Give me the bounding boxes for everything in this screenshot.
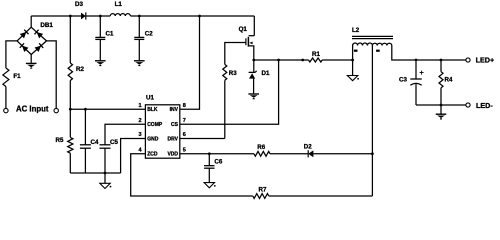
capacitor C3 (electrolytic) bbox=[415, 60, 417, 79]
ground (signal) bbox=[100, 183, 110, 188]
svg-text:R2: R2 bbox=[76, 66, 84, 73]
svg-text:R1: R1 bbox=[312, 51, 320, 58]
wire bbox=[99, 16, 101, 37]
svg-text:C6: C6 bbox=[214, 158, 222, 165]
wire R2 branch bbox=[69, 16, 71, 63]
ground (primary) bbox=[347, 76, 357, 81]
node R1 left bbox=[301, 59, 304, 62]
capacitor C5 bbox=[100, 144, 111, 146]
svg-text:INV: INV bbox=[170, 107, 179, 113]
svg-text:C4: C4 bbox=[91, 139, 99, 146]
node: rail junction R2 bbox=[69, 15, 72, 18]
node pin1/R-divider bbox=[69, 108, 72, 111]
svg-text:VDD: VDD bbox=[167, 152, 178, 158]
svg-text:COMP: COMP bbox=[147, 122, 163, 128]
bridge rectifier DB1 bbox=[17, 27, 31, 41]
svg-text:C1: C1 bbox=[106, 31, 114, 38]
wire tap vertical bbox=[371, 46, 373, 197]
wire secondary right leg bbox=[392, 46, 466, 61]
resistor R5 bbox=[68, 137, 73, 153]
wire bridge top to rail bbox=[30, 16, 32, 27]
wire bbox=[138, 39, 140, 60]
wire pin2 to C5 bbox=[105, 124, 145, 145]
inductor L1 bbox=[110, 14, 130, 16]
svg-text:CS: CS bbox=[171, 122, 179, 128]
svg-text:D1: D1 bbox=[262, 70, 270, 77]
op-amp / controller IC U1 bbox=[145, 105, 179, 158]
svg-text:D2: D2 bbox=[304, 143, 312, 150]
wire bbox=[86, 15, 110, 17]
svg-text:U1: U1 bbox=[146, 95, 154, 102]
bridge diode bottom-right bbox=[34, 43, 43, 52]
svg-text:L1: L1 bbox=[115, 1, 123, 8]
ground rail wire bbox=[70, 172, 120, 174]
node pin1/C4 bbox=[84, 108, 87, 111]
resistor R6 bbox=[254, 151, 270, 156]
AC terminal left bbox=[4, 108, 8, 112]
wire bbox=[99, 39, 101, 60]
svg-text:5: 5 bbox=[183, 147, 186, 153]
node source/pin7 bbox=[277, 59, 280, 62]
resistor R3 bbox=[223, 64, 227, 80]
svg-text:R7: R7 bbox=[259, 187, 267, 194]
svg-text:2: 2 bbox=[138, 118, 141, 124]
wire bbox=[84, 148, 86, 173]
wire ground stub bbox=[104, 173, 106, 183]
svg-text:7: 7 bbox=[183, 118, 186, 124]
svg-text:C5: C5 bbox=[110, 139, 118, 146]
wire source row bbox=[254, 59, 309, 61]
svg-text:R5: R5 bbox=[56, 137, 64, 144]
wire bbox=[415, 84, 417, 105]
bridge diode top-right bbox=[34, 30, 43, 39]
svg-text:ZCD: ZCD bbox=[147, 152, 158, 158]
primary winding bbox=[353, 43, 373, 45]
bridge diode top-left bbox=[20, 30, 29, 39]
ground (output) bbox=[436, 113, 447, 115]
wire bbox=[69, 153, 71, 173]
wire bbox=[138, 16, 140, 37]
wire bridge right arm bbox=[47, 41, 57, 109]
node: rail junction C2 bbox=[138, 15, 141, 18]
resistor R1 bbox=[309, 58, 323, 62]
ground (C6) bbox=[204, 183, 214, 188]
wire R3 vertical bbox=[224, 80, 226, 138]
capacitor C2 bbox=[134, 36, 144, 38]
node primary/R1 bbox=[351, 59, 354, 62]
node source/D1 bbox=[252, 59, 255, 62]
top rail / DC bus wire bbox=[31, 15, 81, 17]
node C3 bbox=[415, 59, 418, 62]
svg-text:BLK: BLK bbox=[147, 107, 158, 113]
node R4/ground bbox=[440, 104, 443, 107]
bridge diode bottom-left bbox=[20, 43, 29, 52]
wire bbox=[352, 60, 354, 76]
diode D3 bbox=[81, 13, 86, 20]
resistor R2 bbox=[68, 63, 72, 81]
wire C6 branch bbox=[208, 154, 210, 166]
capacitor C4 bbox=[80, 144, 91, 146]
transistor Q1 (MOSFET) bbox=[253, 16, 255, 36]
svg-text:GND: GND bbox=[147, 136, 159, 142]
wire pin3 to ground rail bbox=[121, 139, 146, 174]
ground (bridge) bbox=[26, 62, 37, 64]
node R4 top bbox=[440, 59, 443, 62]
AC terminal right bbox=[54, 108, 58, 112]
svg-text:DB1: DB1 bbox=[40, 22, 53, 29]
wire bbox=[104, 148, 106, 173]
node rail/pin8 bbox=[198, 15, 201, 18]
wire bbox=[269, 195, 373, 197]
resistor R4 bbox=[440, 60, 442, 72]
wire bbox=[208, 168, 210, 182]
wire pin6 to gate via R3 bbox=[180, 138, 225, 140]
wire bbox=[313, 153, 372, 155]
wire bbox=[322, 59, 352, 61]
svg-text:LED+: LED+ bbox=[476, 56, 495, 65]
svg-text:6: 6 bbox=[183, 132, 186, 138]
wire pin7 to source bbox=[180, 60, 279, 124]
wire pin4 to R7 row bbox=[131, 154, 253, 196]
wire bbox=[440, 88, 442, 105]
svg-text:AC Input: AC Input bbox=[16, 105, 49, 114]
svg-text:3: 3 bbox=[138, 132, 141, 138]
wire pin1 row bbox=[70, 108, 145, 110]
svg-text:F1: F1 bbox=[13, 73, 21, 80]
svg-text:DRV: DRV bbox=[168, 136, 179, 142]
svg-text:Q1: Q1 bbox=[239, 26, 248, 33]
wire to AC terminal left bbox=[5, 87, 7, 109]
wire C4 branch bbox=[84, 109, 86, 145]
svg-text:R6: R6 bbox=[257, 144, 265, 151]
wire bbox=[130, 15, 254, 17]
LED+ terminal bbox=[466, 58, 470, 62]
wire bbox=[270, 153, 308, 155]
wire ground stub bbox=[440, 105, 442, 114]
svg-text:8: 8 bbox=[183, 103, 186, 109]
ground (C1) bbox=[95, 60, 106, 62]
wire bridge left arm bbox=[6, 41, 17, 68]
svg-text:C3: C3 bbox=[399, 77, 407, 84]
wire bridge bottom to ground bbox=[30, 55, 32, 63]
ground (C2) bbox=[134, 60, 145, 62]
fuse F1 bbox=[3, 68, 9, 87]
wire pin5 row bbox=[180, 153, 254, 155]
svg-text:LED-: LED- bbox=[476, 101, 493, 110]
zener diode D1 bbox=[253, 60, 255, 72]
svg-text:L2: L2 bbox=[352, 27, 360, 34]
svg-text:R4: R4 bbox=[445, 76, 453, 83]
wire gate bbox=[225, 43, 246, 65]
node ground rail bbox=[104, 172, 107, 175]
ground (D1) bbox=[248, 93, 259, 95]
node: rail junction C1 bbox=[99, 15, 102, 18]
node D2/tap bbox=[371, 152, 374, 155]
secondary winding bbox=[372, 43, 391, 45]
resistor R7 bbox=[253, 194, 269, 199]
svg-text:1: 1 bbox=[138, 103, 141, 109]
wire pin8 to rail bbox=[180, 16, 200, 109]
capacitor C6 bbox=[204, 165, 214, 167]
svg-text:C2: C2 bbox=[145, 31, 153, 38]
capacitor C1 bbox=[95, 36, 105, 38]
svg-text:D3: D3 bbox=[75, 1, 83, 8]
wire bbox=[253, 79, 255, 94]
diode D2 bbox=[308, 150, 313, 157]
node pin5/C6 bbox=[208, 152, 211, 155]
wire primary left leg bbox=[352, 46, 354, 61]
wire bbox=[69, 81, 71, 138]
wire LED- row bbox=[416, 104, 466, 106]
svg-text:R3: R3 bbox=[229, 70, 237, 77]
LED- terminal bbox=[466, 103, 470, 107]
